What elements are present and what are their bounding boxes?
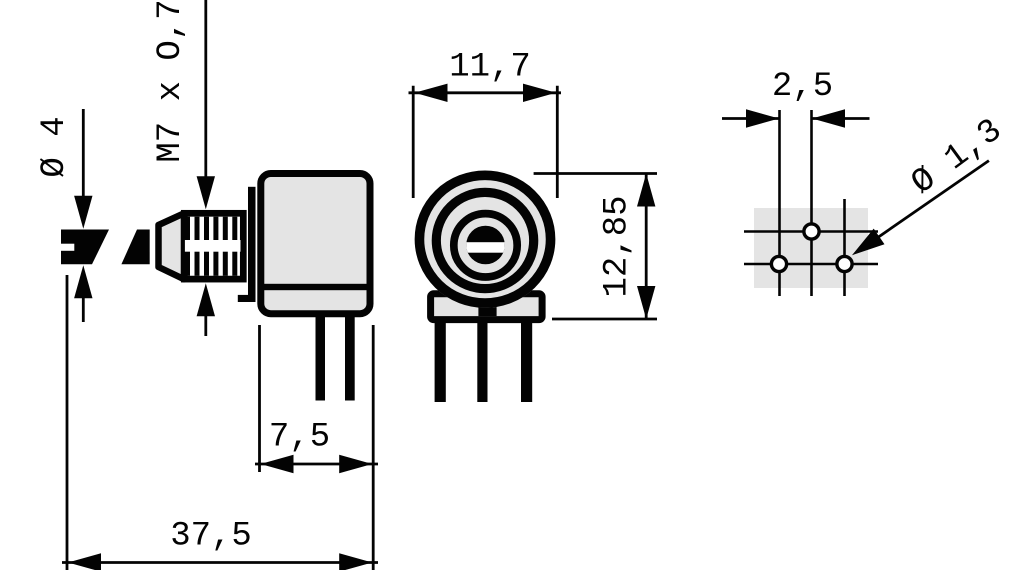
front view: rotor disc with slot	[464, 226, 507, 265]
side view: shaft nose cone	[159, 213, 185, 279]
dimension 12,85	[534, 174, 657, 320]
svg-text:12,85: 12,85	[599, 195, 637, 297]
svg-text:2,5: 2,5	[772, 68, 833, 106]
dimension 2,5	[722, 68, 870, 128]
pin layout view: pin top	[804, 224, 819, 239]
svg-text:37,5: 37,5	[170, 518, 252, 556]
svg-text:Ø 4: Ø 4	[36, 116, 74, 177]
dimension 37,5	[62, 275, 378, 570]
svg-text:Ø 1,3: Ø 1,3	[905, 112, 1010, 203]
side view: chamfer wedge	[121, 230, 149, 265]
dimension Ø 1,3 leader	[852, 112, 1010, 255]
side view: legs	[316, 313, 355, 401]
side view: threaded bushing M7	[184, 213, 243, 279]
front view: body disc	[415, 171, 556, 308]
front view: ring 2	[436, 192, 533, 288]
front view: base	[431, 294, 542, 320]
svg-text:7,5: 7,5	[269, 419, 330, 457]
pin layout view: pin bottom-right	[837, 256, 852, 271]
front view: outer ring	[419, 175, 550, 303]
front view: wiper tab	[478, 307, 496, 316]
svg-text:11,7: 11,7	[449, 49, 531, 87]
side view: slotted shaft tip silhouette	[59, 230, 109, 265]
pin layout view: crosshair lines	[744, 110, 878, 296]
side view: mounting flange	[238, 187, 256, 302]
dimension 7,5	[255, 325, 378, 473]
front view: ring 3	[454, 214, 517, 277]
pin layout view: pin bottom-left	[771, 256, 786, 271]
dimension 11,7	[409, 49, 562, 199]
side view: body	[258, 174, 372, 314]
pin layout view: pcb pad	[754, 208, 868, 288]
front view: legs	[435, 316, 533, 402]
svg-text:M7 x O,7: M7 x O,7	[152, 0, 190, 163]
dimension M7 x 0,7	[152, 0, 215, 336]
dimension Ø 4	[36, 109, 93, 322]
